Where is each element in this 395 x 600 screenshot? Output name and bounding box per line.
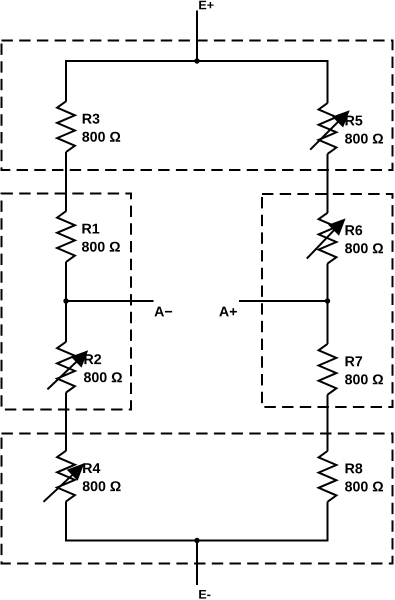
variable strain-gauge resistor R5 — [310, 103, 350, 154]
label R1 value 800 Ω — [82, 224, 120, 252]
junction dot: E+ node — [194, 58, 199, 63]
label: terminal E+ — [199, 1, 213, 10]
variable strain-gauge resistor R6 — [307, 213, 346, 264]
label R2 value 800 Ω — [84, 354, 122, 382]
resistor R7 — [319, 344, 337, 395]
wire: left branch R2 to R4 — [65, 393, 67, 451]
label R4 value 800 Ω — [83, 463, 121, 491]
wire: left branch R3 to R1 — [65, 152, 67, 211]
label R5 value 800 Ω — [345, 116, 383, 144]
variable strain-gauge resistor R4 — [44, 451, 85, 502]
resistor R3 — [57, 101, 75, 152]
variable strain-gauge resistor R2 — [47, 342, 88, 393]
dashed enclosure box: bottom bridge section (R4/R8) — [2, 434, 393, 564]
wire: A- tap — [66, 300, 154, 302]
wire: E+ stem — [196, 11, 198, 62]
label: node A- — [155, 307, 173, 317]
wire: top rail right half with drop to R5 — [197, 61, 328, 103]
label R3 value 800 Ω — [82, 114, 120, 142]
wire: right branch R7 to R8 — [327, 395, 329, 452]
label R7 value 800 Ω — [345, 356, 383, 384]
dashed enclosure box: right arm section (R6/R7) — [262, 194, 393, 407]
wire: E- stem — [196, 541, 198, 586]
wire: top rail left half with drop to R3 — [66, 61, 197, 102]
label: terminal E- — [199, 590, 210, 599]
resistor R1 — [57, 211, 75, 262]
wire: left branch R1 to R2 through node A- — [65, 262, 67, 342]
wire: bottom rail left half from R4 — [66, 501, 197, 540]
label R8 value 800 Ω — [345, 463, 383, 491]
wire: right branch R5 to R6 — [327, 154, 329, 213]
dashed enclosure box: left arm section (R1/R2) — [2, 194, 132, 410]
junction dot: E- node — [194, 538, 199, 543]
wire: bottom rail right half from R8 — [197, 502, 328, 541]
resistor R8 — [319, 451, 337, 502]
wire: A+ tap — [239, 300, 328, 302]
wire: right branch R6 to R7 through node A+ — [327, 264, 329, 345]
dashed enclosure box: top bridge section (R3/R5) — [2, 41, 393, 171]
junction dot: A+ node — [325, 298, 330, 303]
junction dot: A- node — [63, 298, 68, 303]
label: node A+ — [219, 307, 237, 317]
label R6 value 800 Ω — [345, 225, 383, 253]
